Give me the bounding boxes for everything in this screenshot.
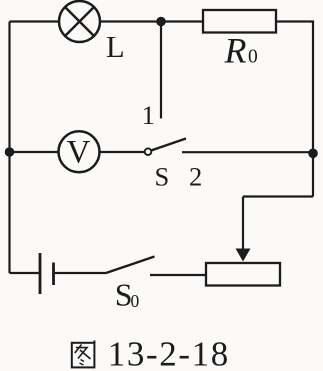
wire: top-left to lamp: [10, 20, 60, 22]
switch S pole (open circle): [145, 148, 152, 155]
resistor R0: [203, 10, 276, 33]
svg-text:L: L: [106, 30, 125, 64]
battery short plate: [52, 263, 55, 286]
wire: top node to resistor: [161, 20, 203, 22]
wire: bottom-left corner to battery: [10, 272, 39, 274]
wire: contact 1 drop from top node: [160, 22, 162, 119]
wiper shaft: [242, 197, 244, 251]
junction node (right rail / contact-2 wire): [308, 149, 318, 159]
wiper arrowhead: [236, 249, 251, 262]
wire: wiper horizontal from right rail: [243, 195, 313, 197]
svg-text:S: S: [155, 161, 170, 191]
wire: battery to switch S0 pivot: [55, 272, 106, 274]
battery long plate: [39, 253, 42, 294]
switch S0 blade: [106, 257, 155, 274]
wire: resistor to right rail, right vertical rail: [276, 22, 313, 197]
svg-text:13-2-18: 13-2-18: [108, 334, 230, 371]
wire: S0 contact to rheostat: [150, 274, 206, 276]
voltmeter U1 circle: [59, 131, 100, 172]
junction node (left rail / voltmeter branch): [5, 147, 15, 157]
wire: contact 2 to right junction: [182, 151, 313, 153]
wire: voltmeter to switch pole: [100, 151, 145, 153]
junction node (top, lamp/R0/contact-1): [156, 17, 166, 27]
svg-text:0: 0: [131, 291, 140, 311]
wire: lamp to top node: [100, 20, 161, 22]
rheostat R: [206, 263, 280, 286]
svg-text:2: 2: [189, 161, 202, 191]
svg-text:0: 0: [248, 47, 258, 68]
svg-text:R: R: [224, 31, 247, 71]
lamp L: [59, 1, 100, 42]
caption glyph 图: [72, 341, 95, 368]
switch S blade: [151, 139, 186, 151]
wire: left vertical rail: [8, 22, 10, 274]
svg-text:V: V: [66, 135, 90, 171]
wire: left node to voltmeter: [10, 151, 59, 153]
svg-text:1: 1: [142, 100, 155, 130]
